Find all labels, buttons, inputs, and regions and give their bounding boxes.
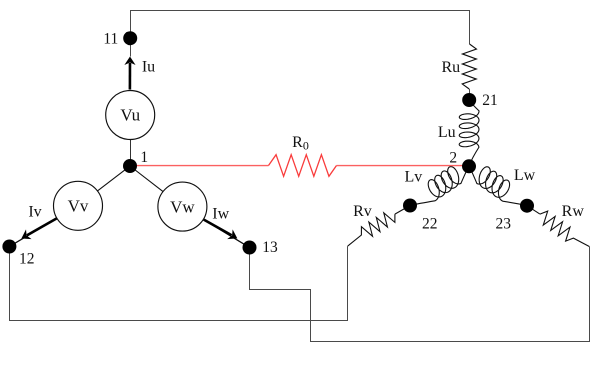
- svg-text:Lv: Lv: [405, 169, 423, 186]
- wire: Vw to node 13: [203, 219, 249, 247]
- svg-text:12: 12: [19, 251, 35, 268]
- svg-text:23: 23: [495, 216, 511, 233]
- wire: Rv to node 22: [395, 206, 410, 215]
- wire: node 12 down and along bottom to Rv: [10, 246, 348, 320]
- node 11: [123, 31, 137, 45]
- wire: arrow tip to node 11: [130, 40, 132, 57]
- wire: node 13 down, jog, along bottom to Rw: [250, 247, 590, 342]
- inductor Lu: [459, 100, 479, 166]
- source Vv: [54, 181, 103, 230]
- svg-text:22: 22: [422, 216, 438, 233]
- svg-text:Rw: Rw: [562, 203, 585, 220]
- wire: node 1 to Vw: [130, 166, 163, 192]
- wire red right half: [337, 165, 470, 167]
- node 12: [2, 240, 16, 254]
- resistor Ru: [462, 44, 476, 89]
- svg-text:21: 21: [482, 92, 498, 109]
- wire: Vu bottom to node 1: [130, 140, 132, 167]
- svg-text:Iv: Iv: [28, 204, 41, 221]
- inductor Lv: [410, 166, 469, 206]
- svg-text:Vw: Vw: [170, 198, 195, 217]
- node 13: [243, 241, 257, 255]
- current arrow Iu: [129, 63, 132, 90]
- node 22: [403, 199, 417, 213]
- wire: Rw to node 23: [527, 206, 540, 214]
- svg-text:11: 11: [103, 31, 118, 48]
- svg-text:Ru: Ru: [441, 59, 460, 76]
- svg-text:2: 2: [449, 149, 457, 166]
- current arrow Iw: [204, 220, 232, 236]
- svg-text:Iu: Iu: [142, 59, 155, 76]
- svg-text:Rv: Rv: [353, 203, 372, 220]
- wire: Vv edge to node 12 under arrow: [9, 218, 57, 246]
- wire R0 red: node 1 to node 2 with red resistor: [130, 165, 269, 167]
- svg-text:1: 1: [140, 149, 148, 166]
- svg-text:Vu: Vu: [120, 106, 140, 125]
- resistor R0 (red): [269, 155, 337, 177]
- wire: Vw edge to node 13 under arrow: [203, 219, 249, 247]
- inductor Lw: [469, 166, 527, 206]
- wire: node 11 up and across top to Ru: [131, 11, 470, 45]
- wire: Vv to node 12: [9, 218, 57, 246]
- source Vu: [106, 91, 155, 140]
- node 21: [462, 93, 476, 107]
- svg-text:Vv: Vv: [68, 197, 89, 216]
- node 1: [123, 159, 137, 173]
- svg-text:Iw: Iw: [212, 205, 229, 222]
- node 2: [462, 159, 476, 173]
- svg-text:13: 13: [262, 239, 278, 256]
- source Vw: [158, 182, 207, 231]
- node 23: [520, 199, 534, 213]
- wire: node 1 to Vv: [97, 166, 130, 191]
- resistor Rw: [540, 211, 589, 246]
- resistor Rv: [348, 213, 395, 246]
- svg-text:Lu: Lu: [438, 124, 456, 141]
- svg-text:R0: R0: [292, 134, 309, 153]
- svg-text:Lw: Lw: [514, 167, 536, 184]
- wire: Ru bottom to node 21: [469, 89, 471, 100]
- current arrow Iv: [27, 219, 56, 236]
